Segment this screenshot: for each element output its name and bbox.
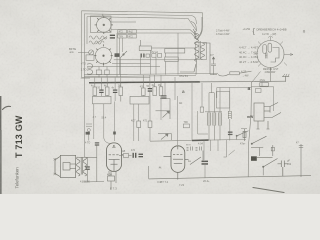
field coil L3 bbox=[83, 157, 87, 176]
cap dark pair mid bbox=[133, 153, 144, 158]
pencil mark bbox=[253, 188, 284, 193]
rail tick bbox=[81, 77, 90, 79]
resistor ladder R11 bbox=[209, 83, 216, 140]
cap C9 bbox=[85, 166, 89, 170]
ground symbol near dial bbox=[282, 74, 289, 82]
wire v5 bbox=[149, 96, 151, 142]
resistor R7 bbox=[159, 83, 163, 101]
wire v6 bbox=[160, 101, 162, 121]
speaker LS cone bbox=[54, 157, 61, 177]
coil can box 1 bbox=[93, 96, 112, 104]
mid verticals right bbox=[175, 33, 204, 145]
wire v2 bbox=[104, 104, 110, 144]
speaker wires bbox=[78, 146, 97, 182]
wire v4 bbox=[138, 104, 140, 141]
wafer switch S1a circle bbox=[95, 14, 136, 34]
osc small box bbox=[146, 54, 162, 58]
oscillator flat box 1 bbox=[165, 49, 185, 62]
comps right of V2: resistor pair bbox=[187, 147, 204, 165]
diode 1 of UBF11 bbox=[156, 99, 171, 119]
tuner box outer left rail (wire) bbox=[81, 11, 83, 78]
right drop wires bbox=[299, 144, 303, 177]
wire dial to rail bbox=[252, 72, 261, 83]
bus riser bbox=[148, 166, 150, 179]
bus wire A bbox=[84, 73, 218, 74]
comp below S1b bbox=[87, 64, 160, 78]
bus wire A right bbox=[239, 71, 251, 73]
dark comp on rail bbox=[86, 132, 90, 135]
below-bus stems bbox=[204, 140, 235, 178]
diode 2 of UBF11 bbox=[158, 134, 171, 141]
horizontal resistor R-top bbox=[210, 72, 239, 76]
osc coupling box bbox=[139, 40, 196, 51]
left page edge dark strip bbox=[0, 96, 1, 194]
wire v11 grid feed bbox=[177, 96, 179, 145]
resistor ladder R10 bbox=[208, 93, 211, 141]
wire v10 bbox=[201, 83, 203, 107]
coupling cap dark right of V2 bbox=[202, 161, 209, 165]
resistor R8a box bbox=[137, 121, 141, 128]
resistor R6 bbox=[153, 83, 157, 96]
coil can box 2 bbox=[130, 96, 149, 104]
switch blade S3 bbox=[251, 136, 266, 144]
switch enclosure bbox=[241, 82, 274, 129]
capacitor C3 (dark) bbox=[113, 90, 117, 94]
antenna jack circle bbox=[86, 50, 94, 60]
variometer coil row 2 with tuning arrow bbox=[89, 37, 107, 45]
band wire 4 bbox=[117, 33, 197, 39]
wire v9 bbox=[191, 83, 193, 140]
wire from circle bottom bbox=[270, 68, 272, 82]
contact wire below S3 bbox=[251, 145, 274, 156]
speaker magnet bbox=[63, 163, 76, 171]
mixer arrow cluster bbox=[121, 51, 128, 58]
main chassis bus (dark) bbox=[89, 81, 200, 84]
wire v7 bbox=[174, 77, 176, 100]
mains switch box S2 bbox=[254, 103, 281, 130]
component feed stubs through bus bbox=[95, 75, 161, 83]
relay armature box bbox=[256, 89, 262, 93]
lower switch S4 bbox=[257, 158, 278, 176]
variometer core (dark) bbox=[110, 35, 115, 36]
padder labels boxes bbox=[118, 30, 137, 38]
socket pin slot 2 bbox=[268, 43, 272, 52]
capacitor C4 (dark) bbox=[148, 88, 152, 92]
T1 secondary winding bbox=[201, 43, 205, 60]
driver tube V2 bbox=[164, 146, 189, 180]
small comp left-mid bbox=[86, 124, 92, 141]
wafer switch S1a box bbox=[91, 16, 112, 33]
antenna lead wire bbox=[78, 51, 89, 53]
small box R9 label bbox=[183, 124, 189, 128]
socket F shape bbox=[271, 48, 280, 63]
dark comp beside S1b bbox=[115, 53, 120, 57]
wire v1 bbox=[93, 104, 95, 139]
cap dark at diode feed bbox=[162, 95, 167, 98]
chassis bus right section bbox=[199, 80, 286, 83]
tuner box main left rail (wire) bbox=[83, 14, 85, 157]
trimmer arrow F bbox=[211, 57, 216, 75]
dark comp at switch bbox=[251, 156, 257, 161]
bus wire B bbox=[84, 75, 196, 76]
socket pin slot 1 bbox=[263, 45, 267, 54]
wire v3 bbox=[133, 104, 135, 141]
osc wires bbox=[121, 53, 166, 77]
power rail right bbox=[248, 82, 251, 177]
resistor ladder R13 bbox=[228, 94, 231, 141]
tuner partition wire bbox=[116, 33, 118, 77]
bottom bus main segment bbox=[149, 176, 311, 179]
wires into T1 bbox=[197, 17, 203, 40]
osc bus wires bbox=[112, 50, 196, 75]
capacitor C2 (dark) bbox=[99, 90, 103, 94]
output transformer T2 coil bbox=[76, 157, 82, 176]
cap C10 bbox=[278, 161, 288, 177]
coil L1 hooks bbox=[87, 64, 93, 74]
lower bus dark segment bbox=[150, 139, 246, 141]
T1 core lines bbox=[198, 41, 200, 59]
resistor R8b box bbox=[148, 121, 152, 128]
wire to switch rail bbox=[217, 88, 252, 99]
resistor R5 bbox=[142, 83, 146, 97]
wire v8 bbox=[177, 33, 179, 75]
secondary out wire bbox=[203, 43, 211, 74]
IF transformer T1 primary coil bbox=[180, 17, 210, 75]
margin pencil tick bbox=[3, 106, 11, 109]
V1 cathode box bbox=[108, 171, 117, 190]
osc cap dark pair bbox=[141, 54, 145, 58]
socket key bar (hatched) bbox=[265, 53, 267, 59]
comps near bottom of mid column bbox=[95, 142, 99, 145]
resistor R2 bbox=[93, 83, 97, 97]
wire v7b bbox=[114, 102, 116, 142]
speaker frame box bbox=[60, 155, 75, 177]
wire to diode bbox=[164, 83, 166, 95]
wafer switch S1b circle bbox=[94, 38, 122, 75]
dropper resistor box bbox=[216, 91, 229, 108]
tuner box top edge (wire) bbox=[82, 11, 203, 40]
tuner box inner left rail (wire) bbox=[86, 17, 88, 44]
tuner inner top wire bbox=[84, 14, 196, 24]
tube socket view U-circle bbox=[254, 36, 294, 71]
bottom bus speaker segment bbox=[82, 181, 104, 184]
dark dot comp bbox=[113, 132, 116, 135]
tuner inner top wire 2 bbox=[87, 17, 196, 30]
resistor R-ant box bbox=[260, 83, 269, 87]
fuse Si bbox=[243, 129, 246, 141]
long verticals mid bbox=[94, 96, 161, 144]
socket ticks with arrows bbox=[254, 36, 294, 71]
resistor R3 bbox=[105, 83, 109, 97]
resistor R4 bbox=[119, 83, 123, 102]
cap dark on R13 bbox=[228, 132, 233, 136]
aux switch blade S2b bbox=[236, 131, 249, 140]
coupling comps row between tubes bbox=[119, 154, 132, 158]
tuner bottom edge wire bbox=[82, 76, 151, 78]
output tube V1 bbox=[107, 143, 124, 172]
variometer coil row 1 bbox=[89, 36, 107, 39]
band wire 3 bbox=[111, 30, 196, 36]
resistor ladder R12 bbox=[198, 98, 222, 140]
